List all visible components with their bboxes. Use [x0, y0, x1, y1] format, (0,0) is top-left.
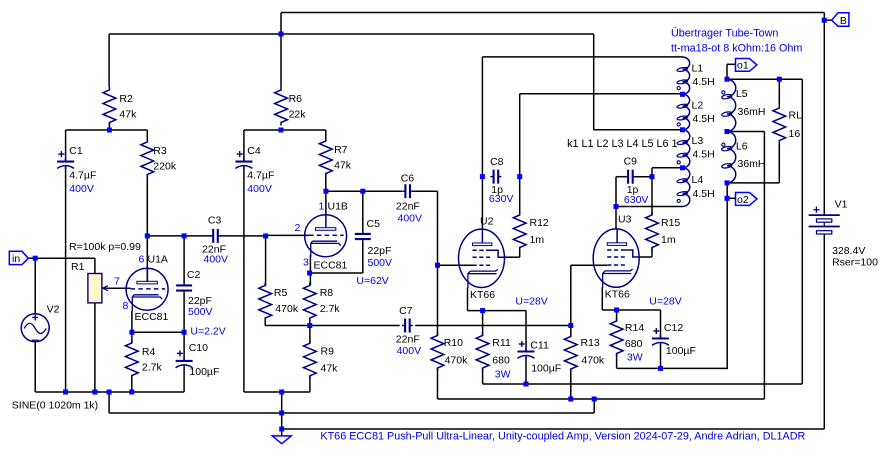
capacitor C7 — [396, 305, 421, 357]
svg-text:100µF: 100µF — [531, 362, 561, 374]
wire R1 wiper to U1A grid — [107, 287, 131, 289]
node U1B cathode voltage — [356, 275, 388, 287]
svg-text:ECC81: ECC81 — [135, 311, 169, 323]
svg-text:U2: U2 — [480, 216, 494, 228]
svg-text:U=28V: U=28V — [649, 296, 681, 308]
ground symbol — [272, 436, 291, 444]
svg-text:400V: 400V — [398, 213, 423, 225]
resistor R2 — [103, 87, 137, 126]
wire in flag stub — [28, 257, 35, 259]
svg-text:U=28V: U=28V — [515, 296, 547, 308]
wire C6 to corner — [413, 191, 438, 335]
svg-text:47k: 47k — [334, 159, 352, 171]
capacitor C2 — [176, 269, 212, 318]
node U1A cathode voltage — [190, 326, 225, 338]
svg-text:36mH: 36mH — [738, 158, 766, 170]
wire o1 flag stem — [727, 64, 736, 79]
wire C1 bottom column — [65, 167, 67, 392]
svg-text:47k: 47k — [321, 362, 339, 374]
svg-text:1: 1 — [319, 201, 325, 213]
capacitor C12 — [652, 322, 696, 357]
wire supply rail to first stages — [109, 33, 594, 35]
svg-text:R10: R10 — [444, 337, 463, 349]
wire node C4/R6/R7 — [244, 129, 326, 131]
wire C5 top lead — [362, 191, 364, 231]
wire C3 to U1B grid node — [220, 235, 266, 237]
svg-text:C9: C9 — [624, 156, 638, 168]
wire V1 top feed — [823, 13, 825, 216]
inductor L5 secondary — [721, 79, 765, 131]
resistor R12 — [513, 212, 549, 251]
resistor R11 — [476, 333, 511, 381]
svg-text:6: 6 — [139, 254, 145, 266]
svg-text:RL: RL — [789, 110, 803, 122]
svg-text:R9: R9 — [321, 346, 335, 358]
wire U2 anode column — [482, 57, 682, 230]
voltage source V2 sine — [12, 304, 98, 412]
svg-text:ECC81: ECC81 — [314, 260, 348, 272]
svg-text:o1: o1 — [737, 60, 749, 72]
svg-text:7: 7 — [114, 276, 120, 288]
potentiometer R1 — [69, 241, 141, 303]
svg-text:470k: 470k — [581, 355, 605, 367]
wire R3 top lead — [146, 130, 148, 142]
svg-text:L4: L4 — [692, 174, 704, 186]
capacitor C8 — [489, 156, 514, 205]
wire C7 to R13 node — [415, 325, 571, 327]
wire in node — [35, 258, 95, 273]
wire U3 cathode node — [602, 287, 660, 338]
capacitor C1 — [57, 145, 96, 195]
svg-text:C2: C2 — [187, 269, 201, 281]
svg-text:4.5H: 4.5H — [693, 149, 715, 161]
svg-text:220k: 220k — [153, 160, 177, 172]
svg-text:R14: R14 — [625, 322, 644, 334]
svg-text:C8: C8 — [490, 156, 504, 168]
svg-text:U1A: U1A — [148, 254, 168, 266]
resistor R10 — [431, 333, 468, 372]
wire V2 bottom lead — [34, 342, 36, 392]
capacitor C10 — [176, 342, 220, 378]
wire R13 bottom lead — [570, 369, 572, 399]
resistor R15 — [646, 212, 681, 251]
svg-text:100µF: 100µF — [189, 366, 219, 378]
svg-text:Übertrager Tube-Town: Übertrager Tube-Town — [671, 28, 778, 40]
svg-text:C5: C5 — [367, 218, 381, 230]
svg-text:R6: R6 — [289, 93, 303, 105]
wire rail2 drop — [109, 392, 594, 413]
svg-text:2.7k: 2.7k — [320, 303, 341, 315]
wire U2 screen — [504, 248, 520, 258]
svg-text:R12: R12 — [530, 217, 549, 229]
svg-text:100µF: 100µF — [666, 345, 696, 357]
wire R1 bottom lead — [94, 303, 96, 392]
wire rail2 to grid rail — [593, 399, 595, 413]
svg-text:L1: L1 — [692, 62, 704, 74]
svg-text:o2: o2 — [737, 194, 749, 206]
svg-text:3W: 3W — [495, 368, 511, 380]
svg-text:2.7k: 2.7k — [142, 361, 163, 373]
svg-text:47k: 47k — [119, 109, 137, 121]
svg-text:1m: 1m — [661, 234, 676, 246]
wire C2 bottom lead — [183, 293, 185, 361]
svg-text:3: 3 — [303, 256, 309, 268]
wire B+ rail top (V1 plus to R6 column) — [281, 13, 824, 35]
op-amp U1A triode ECC81 — [114, 254, 169, 324]
svg-text:C3: C3 — [208, 214, 222, 226]
wire C12 bottom lead — [660, 344, 662, 368]
svg-text:3W: 3W — [627, 351, 643, 363]
transistor U2 pentode KT66 — [459, 216, 548, 308]
resistor R13 — [564, 334, 605, 373]
svg-text:R8: R8 — [320, 287, 334, 299]
svg-text:22nF: 22nF — [396, 333, 420, 345]
svg-text:V1: V1 — [835, 199, 848, 211]
capacitor C9 — [624, 156, 649, 206]
wire U1B anode node — [326, 191, 402, 215]
wire RL bottom to o2 — [727, 144, 779, 183]
voltage source V1 battery — [809, 199, 878, 269]
svg-text:400V: 400V — [69, 183, 94, 195]
svg-text:R13: R13 — [581, 337, 600, 349]
resistor R14 — [610, 318, 644, 363]
svg-text:R15: R15 — [661, 217, 680, 229]
svg-text:400V: 400V — [397, 345, 422, 357]
wire B+ drop to transformer center tap — [594, 34, 683, 130]
wire ground column — [282, 392, 825, 436]
svg-text:SINE(0 1020m 1k): SINE(0 1020m 1k) — [12, 400, 98, 412]
svg-text:Rser=100: Rser=100 — [832, 257, 878, 269]
svg-text:U=2.2V: U=2.2V — [190, 326, 225, 338]
wire U1B grid — [266, 234, 309, 236]
svg-text:680: 680 — [625, 338, 643, 350]
wire bottom rail right — [244, 376, 310, 392]
resistor R9 — [304, 340, 339, 379]
capacitor C4 — [235, 145, 274, 195]
wire U3 screen — [638, 248, 652, 258]
svg-text:R2: R2 — [119, 93, 133, 105]
resistor RL — [773, 105, 802, 144]
wire R7 bottom lead — [325, 174, 327, 192]
capacitor C3 — [202, 214, 228, 265]
svg-text:400V: 400V — [204, 253, 229, 265]
svg-text:470k: 470k — [445, 355, 469, 367]
svg-text:C1: C1 — [69, 145, 83, 157]
svg-text:U=62V: U=62V — [356, 275, 388, 287]
resistor R7 — [319, 138, 351, 177]
wire C2 top lead — [183, 236, 185, 283]
inductor L2 primary — [677, 94, 715, 129]
svg-text:C12: C12 — [664, 322, 683, 334]
wire L4 bottom to U3 anode — [616, 206, 683, 208]
wire C4 top lead — [243, 130, 245, 162]
wire in to V2 top — [34, 258, 36, 314]
wire bottom rail left — [35, 368, 184, 392]
wire C11 bottom lead — [525, 358, 527, 385]
wire R2 top lead — [108, 34, 110, 87]
wire R8 R9 node — [265, 318, 400, 343]
wire C4 bottom column — [243, 167, 245, 392]
port flag in — [9, 251, 28, 264]
svg-text:in: in — [12, 253, 20, 265]
wire U2 cathode node — [468, 288, 527, 352]
svg-text:C7: C7 — [399, 305, 413, 317]
wire o2 column — [726, 183, 728, 369]
svg-text:L6: L6 — [736, 141, 748, 153]
wire R10 bottom lead — [438, 368, 765, 399]
svg-text:U1B: U1B — [328, 201, 348, 213]
wire R6 top lead — [280, 34, 282, 87]
wire node C1/R2/R3 — [66, 129, 148, 131]
svg-text:400V: 400V — [247, 183, 272, 195]
capacitor C5 — [355, 218, 392, 269]
text transformer comment — [671, 28, 802, 55]
svg-text:4.5H: 4.5H — [693, 113, 715, 125]
svg-text:L2: L2 — [692, 100, 704, 112]
svg-text:4.7µF: 4.7µF — [247, 170, 274, 182]
svg-text:8: 8 — [123, 300, 129, 312]
svg-text:KT66: KT66 — [470, 289, 495, 301]
net label B flag — [832, 13, 849, 27]
svg-text:470k: 470k — [275, 303, 299, 315]
wire U3 anode column — [616, 177, 628, 229]
inductor L6 secondary — [721, 132, 765, 183]
svg-text:R11: R11 — [492, 337, 511, 349]
resistor R6 — [275, 87, 307, 126]
svg-text:22k: 22k — [289, 109, 307, 121]
svg-text:22pF: 22pF — [368, 245, 392, 257]
svg-text:328.4V: 328.4V — [832, 245, 865, 257]
wire U1A anode node — [147, 175, 211, 283]
port flag o2 — [736, 193, 758, 206]
svg-text:500V: 500V — [368, 257, 393, 269]
wire R2 bottom lead — [108, 123, 110, 131]
wire C5 bottom to U1B cathode — [310, 242, 363, 273]
svg-text:R7: R7 — [334, 144, 348, 156]
svg-text:L3: L3 — [692, 135, 704, 147]
wire V1 bottom lead — [823, 234, 825, 429]
svg-text:2: 2 — [295, 222, 301, 234]
svg-text:36mH: 36mH — [738, 106, 766, 118]
inductor L1 primary — [677, 57, 715, 94]
inductor L3 primary — [677, 130, 715, 168]
svg-text:C11: C11 — [530, 339, 549, 351]
transistor U3 pentode KT66 — [593, 214, 682, 308]
svg-text:L5: L5 — [736, 88, 748, 100]
svg-text:R3: R3 — [153, 145, 167, 157]
wire U3 grid drop — [571, 265, 607, 336]
wire B flag stub — [824, 19, 831, 21]
text k1 coupling directive — [567, 138, 677, 150]
inductor L4 primary — [677, 168, 715, 207]
wire R12 column — [520, 94, 683, 215]
svg-text:U3: U3 — [618, 214, 632, 226]
svg-text:R1: R1 — [71, 261, 85, 273]
svg-text:4.7µF: 4.7µF — [69, 170, 96, 182]
svg-text:500V: 500V — [188, 306, 213, 318]
svg-text:V2: V2 — [47, 304, 60, 316]
port flag o1 — [736, 59, 757, 72]
svg-text:630V: 630V — [624, 194, 649, 206]
svg-text:R4: R4 — [142, 346, 156, 358]
svg-text:680: 680 — [492, 355, 510, 367]
svg-text:B: B — [840, 15, 847, 27]
wire R7 top lead — [325, 130, 327, 141]
svg-text:C4: C4 — [247, 145, 261, 157]
wire R11 bottom lead — [483, 368, 803, 384]
wire C9 right to R15 column — [633, 168, 683, 215]
capacitor C6 — [396, 172, 422, 224]
svg-text:R5: R5 — [274, 287, 288, 299]
svg-text:4.5H: 4.5H — [693, 76, 715, 88]
svg-text:4.5H: 4.5H — [693, 188, 715, 200]
svg-text:KT66 ECC81 Push-Pull Ultra-Lin: KT66 ECC81 Push-Pull Ultra-Linear, Unity… — [320, 431, 805, 443]
svg-text:22nF: 22nF — [396, 201, 420, 213]
resistor R3 — [141, 139, 177, 178]
resistor R8 — [303, 283, 340, 322]
wire R14 bottom lead — [617, 354, 728, 369]
text title comment — [320, 431, 805, 443]
wire R5 top lead — [265, 236, 267, 286]
wire U1B cathode lead — [309, 255, 311, 286]
wire R4 bottom lead — [131, 376, 133, 393]
svg-text:1m: 1m — [530, 234, 545, 246]
wire o1 node — [727, 79, 802, 384]
svg-text:16: 16 — [789, 128, 801, 140]
resistor R4 — [125, 340, 162, 379]
wire U1A cathode node — [132, 311, 184, 344]
svg-text:tt-ma18-ot 8 kOhm:16 Ohm: tt-ma18-ot 8 kOhm:16 Ohm — [671, 43, 802, 55]
svg-text:k1 L1 L2 L3 L4 L5 L6 1: k1 L1 L2 L3 L4 L5 L6 1 — [567, 138, 677, 150]
svg-text:R=100k p=0.99: R=100k p=0.99 — [69, 241, 141, 253]
svg-text:C6: C6 — [401, 172, 415, 184]
wire o2 flag stub — [727, 197, 736, 199]
resistor R5 — [259, 283, 299, 322]
wire C1 top lead — [65, 130, 67, 162]
op-amp U1B triode ECC81 — [295, 201, 348, 272]
wire RL top lead — [778, 79, 780, 105]
wire U2 grid — [438, 264, 473, 266]
svg-text:630V: 630V — [489, 193, 514, 205]
svg-text:C10: C10 — [189, 342, 208, 354]
capacitor C11 — [518, 339, 562, 374]
wire secondary mid to grid rail — [727, 132, 764, 400]
svg-text:KT66: KT66 — [605, 289, 630, 301]
